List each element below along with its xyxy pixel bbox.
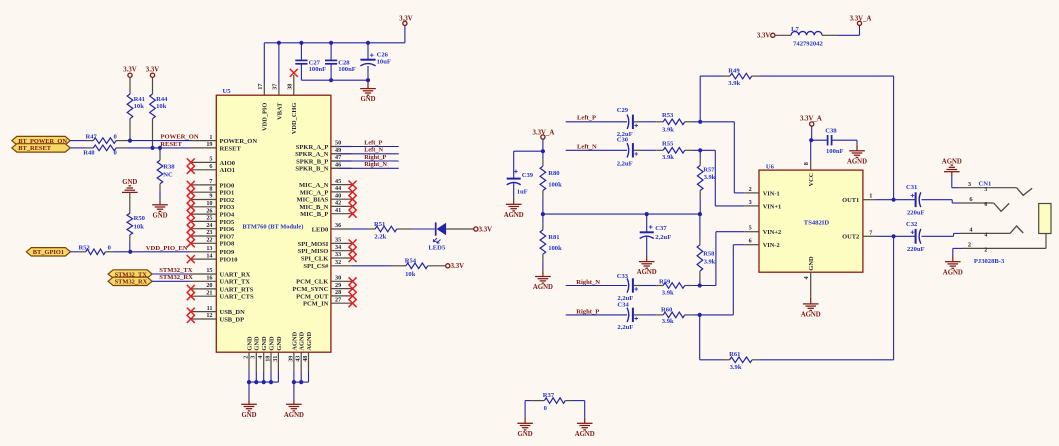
wire Left_P net stub xyxy=(331,146,339,148)
svg-text:GND: GND xyxy=(254,336,261,351)
wire node to U6 pin2 xyxy=(733,122,735,193)
svg-text:R50: R50 xyxy=(134,215,146,222)
svg-text:7: 7 xyxy=(869,229,872,236)
svg-text:29: 29 xyxy=(335,282,341,289)
wire C30 to R55 xyxy=(634,149,641,151)
svg-text:OUT2: OUT2 xyxy=(842,234,859,241)
svg-text:5: 5 xyxy=(209,156,212,163)
svg-text:GND: GND xyxy=(268,336,275,351)
svg-text:3.3V: 3.3V xyxy=(399,16,412,23)
svg-text:C37: C37 xyxy=(655,225,667,232)
svg-text:MIC_BIAS: MIC_BIAS xyxy=(297,197,329,204)
svg-text:220uF: 220uF xyxy=(907,209,925,216)
op-amp U6 TS482ID body xyxy=(759,170,863,272)
wire R47 to pin1 xyxy=(116,140,126,142)
svg-text:VDD_PIO: VDD_PIO xyxy=(262,103,269,131)
svg-text:GND: GND xyxy=(122,179,137,186)
svg-text:PCM_IN: PCM_IN xyxy=(303,301,329,308)
svg-text:AIO1: AIO1 xyxy=(220,167,236,174)
svg-text:RESET: RESET xyxy=(160,141,182,148)
wire R50 to VDD_PIO_EN xyxy=(129,235,131,242)
wire jack pin2 to AGND xyxy=(953,247,962,249)
wire feedback R49 xyxy=(699,76,701,122)
U5 pin 36 LED0 xyxy=(331,228,352,230)
U5 pin 23 PIO7 xyxy=(190,235,217,237)
svg-text:AGND: AGND xyxy=(306,331,313,350)
U5 pin 12 USB_DP xyxy=(190,318,217,320)
wire node to R61 xyxy=(699,315,701,360)
svg-text:RESET: RESET xyxy=(220,145,242,152)
U5 pin 15 UART_RX xyxy=(190,273,217,275)
svg-text:8: 8 xyxy=(209,185,212,192)
U5 bottom pin 43 AGND xyxy=(300,352,302,372)
power 3.3V at LED5 xyxy=(474,227,478,231)
U5 pin 27 PCM_IN xyxy=(331,302,352,304)
port flag STM32_RX xyxy=(108,277,152,285)
svg-text:10: 10 xyxy=(206,200,212,207)
svg-text:0: 0 xyxy=(108,245,112,252)
wire 3.3V to L7 xyxy=(775,34,791,36)
svg-text:UART_CTS: UART_CTS xyxy=(220,294,254,301)
svg-text:6: 6 xyxy=(984,202,987,208)
U5 pin 13 PIO9 xyxy=(190,251,217,253)
resistor R51 2.2k xyxy=(375,226,397,232)
resistor R49 3.9k xyxy=(730,73,752,79)
svg-text:46: 46 xyxy=(335,162,341,169)
U5 pin 46 SPKR_B_N xyxy=(331,167,352,169)
power 3.3V_A above R80 xyxy=(541,135,545,139)
svg-text:9: 9 xyxy=(209,193,212,200)
resistor R50 10k xyxy=(127,213,133,235)
wire R61 to OUT2 xyxy=(752,359,759,361)
U6 pin 7 OUT2 xyxy=(863,235,876,237)
junction xyxy=(292,380,296,384)
svg-text:AGND: AGND xyxy=(284,412,304,419)
svg-text:23: 23 xyxy=(206,229,212,236)
wire L7 to 3.3V_A xyxy=(822,34,837,36)
svg-text:AGND: AGND xyxy=(291,331,298,350)
svg-text:SPI_MISO: SPI_MISO xyxy=(298,248,329,255)
svg-text:STM32_RX: STM32_RX xyxy=(159,274,193,281)
svg-text:SPI_CLK: SPI_CLK xyxy=(301,255,328,262)
svg-text:SPKR_B_P: SPKR_B_P xyxy=(296,158,328,165)
wire OUT1 to C31 xyxy=(876,199,916,201)
wire GND stem below C26 xyxy=(367,80,369,83)
wire R52 to pin13 xyxy=(105,251,112,253)
U5 pin 25 PIO5 xyxy=(190,220,217,222)
resistor R57 3.9k vertical xyxy=(699,150,701,158)
svg-text:Right_P: Right_P xyxy=(364,154,386,161)
wire AGND stem xyxy=(293,382,295,398)
svg-text:31: 31 xyxy=(272,356,279,362)
svg-text:35: 35 xyxy=(335,237,341,244)
svg-text:17: 17 xyxy=(257,84,264,90)
capacitor C37 2,2uF xyxy=(646,214,648,232)
resistor R61 3.9k xyxy=(730,357,753,363)
op-amp U5 BTM760 BT module body xyxy=(216,95,331,352)
U5 bottom pin 4 GND xyxy=(263,352,265,372)
svg-text:VDD_CHG: VDD_CHG xyxy=(291,103,298,135)
svg-text:26: 26 xyxy=(206,207,212,214)
svg-text:25: 25 xyxy=(206,215,212,222)
power 3.3V_A top right xyxy=(857,21,861,25)
wire GND pin to AGND xyxy=(810,297,812,304)
svg-text:3.3V_A: 3.3V_A xyxy=(533,129,555,136)
U5 pin 26 PIO4 xyxy=(190,213,217,215)
U5 pin 19 RESET xyxy=(190,147,217,149)
wire SPI_CS# to R54 xyxy=(352,265,392,267)
U5 bottom pin 31 GND xyxy=(277,352,279,372)
wire C38 to AGND xyxy=(832,139,857,141)
junction xyxy=(645,212,649,216)
wire C34 to R60 xyxy=(634,314,641,316)
svg-text:2: 2 xyxy=(968,242,971,249)
wire R48 to pin19 xyxy=(116,147,126,149)
wire 3.3V to R44 xyxy=(152,77,154,94)
svg-text:1: 1 xyxy=(209,134,212,141)
svg-text:C39: C39 xyxy=(522,172,534,179)
svg-text:SPKR_A_P: SPKR_A_P xyxy=(296,144,329,151)
svg-text:R47: R47 xyxy=(86,133,98,140)
resistor R37 0 ohm GND-AGND bridge xyxy=(525,400,531,402)
svg-text:10uF: 10uF xyxy=(377,59,391,66)
wire GND bus under U5 xyxy=(249,381,278,383)
svg-text:R58: R58 xyxy=(703,250,714,257)
svg-text:BT_RESET: BT_RESET xyxy=(18,145,51,152)
U5 pin 7 PIO0 xyxy=(190,184,217,186)
wire GND stem xyxy=(248,382,250,398)
svg-text:4: 4 xyxy=(984,232,987,238)
svg-text:100nF: 100nF xyxy=(826,148,844,155)
ground AGND right of C38 xyxy=(849,150,865,152)
ground GND left of R37 xyxy=(517,422,533,424)
svg-text:2: 2 xyxy=(242,356,249,359)
wire C32 to jack pin4 xyxy=(922,235,954,237)
wire 3.3V rail above U5 xyxy=(263,43,265,84)
U6 pin 2 VIN-1 xyxy=(744,192,759,194)
svg-text:3.3V: 3.3V xyxy=(757,33,770,40)
capacitor C26 10uF polarized xyxy=(367,43,369,60)
svg-text:742792042: 742792042 xyxy=(793,40,823,47)
svg-text:R55: R55 xyxy=(662,141,674,148)
resistor R38 NC xyxy=(157,160,163,184)
svg-text:10k: 10k xyxy=(156,103,167,110)
svg-text:VBAT: VBAT xyxy=(276,102,283,120)
svg-text:SPI_MOSI: SPI_MOSI xyxy=(298,241,329,248)
U6 pin 3 VIN+1 xyxy=(744,205,759,207)
U5 pin 32 SPI_CS# xyxy=(331,265,352,267)
svg-text:10k: 10k xyxy=(134,103,145,110)
svg-text:R49: R49 xyxy=(728,67,740,74)
junction xyxy=(254,380,258,384)
inductor L7 742792042 xyxy=(791,31,822,35)
wire BT_POWER_ON to R47 xyxy=(70,140,85,142)
U5 pin 10 PIO3 xyxy=(190,206,217,208)
svg-text:2,2uF: 2,2uF xyxy=(655,234,671,241)
svg-text:3.3V: 3.3V xyxy=(146,66,159,73)
svg-text:30: 30 xyxy=(335,275,341,282)
wire LED0 to R51 xyxy=(352,228,368,230)
svg-text:2: 2 xyxy=(749,186,752,193)
svg-text:VIN+1: VIN+1 xyxy=(763,203,782,210)
svg-text:UART_TX: UART_TX xyxy=(220,279,251,286)
resistor R59 3.9k xyxy=(663,283,685,289)
wire C29 to R53 xyxy=(634,121,641,123)
svg-text:PCM_SYNC: PCM_SYNC xyxy=(293,286,329,293)
svg-text:45: 45 xyxy=(335,178,341,185)
svg-text:BTM760 (BT Module): BTM760 (BT Module) xyxy=(242,224,303,231)
svg-text:24: 24 xyxy=(206,222,212,229)
svg-text:AGND: AGND xyxy=(575,431,595,438)
svg-text:Right_N: Right_N xyxy=(364,161,387,168)
wire Right_N to C33 xyxy=(566,285,627,287)
U5 bottom pin 18 GND xyxy=(270,352,272,372)
svg-text:BT_GPIO1: BT_GPIO1 xyxy=(33,249,64,256)
svg-text:10k: 10k xyxy=(134,223,145,230)
jack contact pin 3 xyxy=(1017,188,1033,196)
ground AGND above jack (inverted) xyxy=(944,171,960,173)
U5 pin 11 USB_DN xyxy=(190,311,217,313)
junction xyxy=(262,380,266,384)
svg-text:VIN+2: VIN+2 xyxy=(763,229,782,236)
svg-text:PCM_CLK: PCM_CLK xyxy=(296,279,328,286)
svg-text:100k: 100k xyxy=(548,245,562,252)
svg-text:UART_RX: UART_RX xyxy=(220,271,251,278)
svg-text:C30: C30 xyxy=(617,137,629,144)
ground GND under U5 xyxy=(241,403,257,405)
svg-text:3.3V: 3.3V xyxy=(451,263,464,270)
U5 pin 30 PCM_CLK xyxy=(331,280,352,282)
U5 pin 49 SPKR_A_N xyxy=(331,153,352,155)
wire OUT2 to C32 xyxy=(876,235,916,237)
svg-text:3.9k: 3.9k xyxy=(662,154,674,161)
junction node VIN-2 xyxy=(698,313,702,317)
svg-text:UART_RTS: UART_RTS xyxy=(220,286,254,293)
svg-text:C31: C31 xyxy=(906,184,917,191)
svg-text:22: 22 xyxy=(206,237,212,244)
svg-text:Left_P: Left_P xyxy=(577,115,596,122)
svg-text:C32: C32 xyxy=(906,221,918,228)
svg-text:C34: C34 xyxy=(617,302,629,309)
svg-text:C26: C26 xyxy=(377,51,389,58)
wire Right_P to C34 xyxy=(566,314,627,316)
svg-text:LED5: LED5 xyxy=(428,244,446,251)
svg-text:GND: GND xyxy=(246,336,253,351)
wire R41 to POWER_ON xyxy=(129,119,131,141)
svg-text:3.9k: 3.9k xyxy=(704,174,716,181)
U5 pin 33 SPI_CLK xyxy=(331,257,352,259)
svg-text:MIC_A_N: MIC_A_N xyxy=(299,182,329,189)
svg-text:5: 5 xyxy=(749,225,752,232)
svg-text:R37: R37 xyxy=(543,392,555,399)
svg-text:GND: GND xyxy=(152,212,167,219)
wire Left_P to C29 xyxy=(566,121,627,123)
ground GND below C26 xyxy=(360,88,376,90)
svg-text:AGND: AGND xyxy=(847,158,867,165)
svg-text:39: 39 xyxy=(287,356,294,362)
wire AGND stem right of R37 xyxy=(584,401,586,418)
svg-text:CN1: CN1 xyxy=(979,181,992,188)
svg-text:AGND: AGND xyxy=(504,212,524,219)
svg-text:49: 49 xyxy=(335,147,341,154)
svg-text:2: 2 xyxy=(984,247,987,253)
wire Right_P net stub xyxy=(331,160,339,162)
svg-text:R51: R51 xyxy=(374,221,385,228)
wire GND stem left of R37 xyxy=(524,401,526,418)
svg-text:7: 7 xyxy=(209,178,212,185)
U5 pin 24 PIO6 xyxy=(190,228,217,230)
svg-text:R81: R81 xyxy=(548,234,559,241)
U5 bottom pin 39 AGND xyxy=(293,352,295,372)
svg-text:220uF: 220uF xyxy=(907,246,925,253)
svg-text:12: 12 xyxy=(206,312,212,319)
wire 3.3V_A down xyxy=(542,139,544,151)
svg-text:2,2uF: 2,2uF xyxy=(617,160,633,167)
svg-text:AGND: AGND xyxy=(299,331,306,350)
wire node to U6 pin3 xyxy=(714,150,716,206)
svg-text:VDD_PIO_EN: VDD_PIO_EN xyxy=(146,245,188,252)
svg-text:POWER_ON: POWER_ON xyxy=(161,133,199,140)
U5 bottom pin 48 AGND xyxy=(308,352,310,372)
svg-text:R57: R57 xyxy=(703,167,715,174)
svg-text:L7: L7 xyxy=(791,26,799,33)
svg-text:PIO3: PIO3 xyxy=(220,204,236,211)
ground AGND below C39 xyxy=(506,203,522,205)
wire C33 to R59 xyxy=(634,285,641,287)
resistor R58 3.9k vertical xyxy=(699,214,701,238)
wire R59 to node xyxy=(685,285,692,287)
svg-text:48: 48 xyxy=(302,356,309,362)
svg-text:R59: R59 xyxy=(659,278,671,285)
svg-text:MIC_A_P: MIC_A_P xyxy=(300,189,329,196)
svg-text:GND: GND xyxy=(241,412,256,419)
svg-text:34: 34 xyxy=(335,244,341,251)
port flag BT_POWER_ON xyxy=(12,136,70,144)
svg-text:3: 3 xyxy=(968,181,971,188)
svg-text:15: 15 xyxy=(206,267,212,274)
wire AGND stem below jack xyxy=(952,248,954,255)
U5 pin 8 PIO1 xyxy=(190,191,217,193)
wire C31 to jack pin6 xyxy=(922,199,953,201)
ground AGND below R81 xyxy=(535,276,551,278)
wire Left_N to C30 xyxy=(566,149,627,151)
wire node to U6 pin5 xyxy=(715,232,717,286)
wire STM32_RX to pin16 xyxy=(152,280,190,282)
svg-text:PIO9: PIO9 xyxy=(220,249,236,256)
U5 pin 35 SPI_MOSI xyxy=(331,242,352,244)
svg-text:28: 28 xyxy=(335,289,341,296)
svg-text:Left_N: Left_N xyxy=(577,144,597,151)
wire VCC node to C38 xyxy=(812,139,828,141)
wire R49 to OUT1 xyxy=(752,75,759,77)
svg-text:Left_N: Left_N xyxy=(364,147,383,154)
wire R55 to node xyxy=(685,149,692,151)
svg-text:PIO4: PIO4 xyxy=(220,212,236,219)
svg-text:C29: C29 xyxy=(617,107,629,114)
ground AGND under U5 xyxy=(286,403,302,405)
svg-text:POWER_ON: POWER_ON xyxy=(220,138,258,145)
svg-text:37: 37 xyxy=(272,84,279,90)
port flag STM32_TX xyxy=(108,270,152,278)
svg-text:3.3V_A: 3.3V_A xyxy=(850,16,872,23)
ground AGND below jack xyxy=(945,261,961,263)
svg-text:VIN-1: VIN-1 xyxy=(763,190,780,197)
svg-text:AGND: AGND xyxy=(801,312,821,319)
svg-text:R54: R54 xyxy=(405,258,417,265)
junction xyxy=(150,146,154,150)
U5 pin 1 POWER_ON xyxy=(190,140,217,142)
svg-text:11: 11 xyxy=(207,305,213,312)
svg-text:36: 36 xyxy=(335,222,341,229)
svg-text:U6: U6 xyxy=(766,163,775,170)
resistor R60 3.9k xyxy=(663,312,685,318)
junction xyxy=(128,139,132,143)
svg-text:2.2k: 2.2k xyxy=(374,234,386,241)
svg-text:VIN-2: VIN-2 xyxy=(763,242,780,249)
svg-text:44: 44 xyxy=(335,185,341,192)
svg-text:8: 8 xyxy=(803,162,810,165)
svg-text:1: 1 xyxy=(869,193,872,200)
svg-text:PIO2: PIO2 xyxy=(220,197,235,204)
svg-text:STM32_TX: STM32_TX xyxy=(159,267,193,274)
svg-text:C38: C38 xyxy=(825,128,837,135)
U6 pin 5 VIN+2 xyxy=(744,231,759,233)
svg-text:42: 42 xyxy=(335,200,341,207)
svg-text:LED0: LED0 xyxy=(312,226,329,233)
resistor R55 3.9k xyxy=(663,148,685,154)
U5 pin 20 UART_RTS xyxy=(190,288,217,290)
svg-text:100nF: 100nF xyxy=(338,66,356,73)
junction xyxy=(299,380,303,384)
U5 pin 9 PIO2 xyxy=(190,199,217,201)
junction OUT1 node xyxy=(892,198,896,202)
junction xyxy=(809,138,813,142)
resistor R81 100k xyxy=(542,214,544,223)
power 3.3V above C26 xyxy=(403,21,407,25)
svg-text:PIO7: PIO7 xyxy=(220,233,236,240)
svg-text:3.9k: 3.9k xyxy=(704,258,716,265)
connector CN1 jack body xyxy=(1039,204,1051,234)
wire cap bottom rail xyxy=(301,79,368,81)
svg-text:3: 3 xyxy=(250,356,257,359)
ground AGND below C37 xyxy=(639,261,655,263)
svg-text:0: 0 xyxy=(114,133,118,140)
U5 pin 41 MIC_B_P xyxy=(331,213,352,215)
U6 pin 4 GND xyxy=(810,272,812,297)
power 3.3V above R44 xyxy=(150,73,154,77)
U5 bottom pin 2 GND xyxy=(248,352,250,372)
svg-text:16: 16 xyxy=(206,275,212,282)
svg-text:U5: U5 xyxy=(223,88,232,95)
junction node VIN+1 xyxy=(698,148,702,152)
svg-text:AGND: AGND xyxy=(637,269,657,276)
resistor R41 10k xyxy=(127,94,133,119)
junction xyxy=(269,380,273,384)
svg-text:R80: R80 xyxy=(548,170,560,177)
wire RESET to R38 xyxy=(159,148,161,154)
resistor R52 0 xyxy=(86,249,106,255)
svg-text:PCM_OUT: PCM_OUT xyxy=(296,293,329,300)
svg-text:6: 6 xyxy=(969,196,973,203)
U5 pin 5 AIO0 xyxy=(190,161,217,163)
svg-text:3.9k: 3.9k xyxy=(662,318,674,325)
svg-text:R61: R61 xyxy=(729,351,740,358)
junction xyxy=(541,212,545,216)
wire BT_GPIO1 to R52 xyxy=(70,251,78,253)
wire R38 to GND xyxy=(159,184,161,191)
U6 pin 6 VIN-2 xyxy=(744,244,759,246)
svg-text:6: 6 xyxy=(749,238,752,245)
